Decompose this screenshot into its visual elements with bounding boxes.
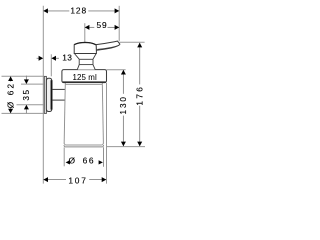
svg-text:125 ml: 125 ml: [73, 73, 97, 82]
extension line right of 13 (plate front): [50, 54, 52, 76]
common bottom extension line: [107, 146, 145, 148]
svg-text:176: 176: [136, 85, 145, 106]
pump cap top thick edge: [74, 43, 96, 45]
dimension 13: [37, 53, 73, 63]
holder ring band: [62, 70, 107, 83]
svg-text:66: 66: [83, 155, 96, 165]
wall plate front edge (thick): [51, 80, 53, 109]
wall plate back flange: [44, 76, 46, 113]
dimension 107: [43, 175, 106, 185]
bottle glass rim line under ring: [65, 84, 102, 86]
svg-text:59: 59: [96, 20, 107, 30]
extension lines of diameter 66: [63, 147, 65, 166]
svg-text:13: 13: [62, 53, 72, 63]
pump neck silhouette: [74, 54, 96, 70]
dimension diameter 62 (plate): [2, 76, 45, 113]
pump taper sides: [74, 54, 96, 60]
bottle left side: [64, 83, 65, 144]
svg-text:Ø: Ø: [69, 155, 76, 165]
wall extension line: [42, 6, 44, 184]
extension line right of 107 (ring front): [106, 83, 108, 184]
pump lever inner underside line: [97, 45, 119, 49]
bottle outer bottom / foot: [64, 145, 104, 147]
dimension 176: [136, 43, 145, 146]
extension line top of 176 (spout tip): [119, 41, 144, 43]
dimension 35: [17, 76, 45, 114]
pump lever (handle): [96, 41, 120, 50]
svg-text:128: 128: [70, 6, 87, 16]
pump neck line lower: [79, 64, 93, 66]
holder arm top: [52, 88, 65, 90]
holder ring band bottom thick edge: [63, 81, 106, 83]
pump waist sides: [79, 59, 93, 64]
dimension 59: [85, 20, 119, 30]
bottle right side: [102, 83, 103, 144]
extension line at lever tip (right of 128/59): [118, 6, 120, 41]
wall plate front boss: [46, 78, 51, 111]
bottle inner bottom: [64, 143, 103, 145]
svg-text:107: 107: [68, 175, 87, 185]
holder arm bottom: [52, 99, 65, 101]
pump flare sides: [77, 65, 95, 70]
dimension 128: [43, 6, 119, 16]
svg-text:130: 130: [119, 95, 128, 114]
pump cap body: [74, 42, 96, 53]
extension line left of 59 (pump axis): [84, 23, 86, 42]
dimension 130: [119, 70, 128, 146]
dimension diameter 66: [66, 155, 103, 165]
extension line top of 130 (holder ring top): [107, 69, 126, 71]
pump neck line upper: [79, 58, 93, 60]
svg-text:35: 35: [22, 88, 31, 100]
svg-text:Ø 62: Ø 62: [6, 82, 15, 109]
